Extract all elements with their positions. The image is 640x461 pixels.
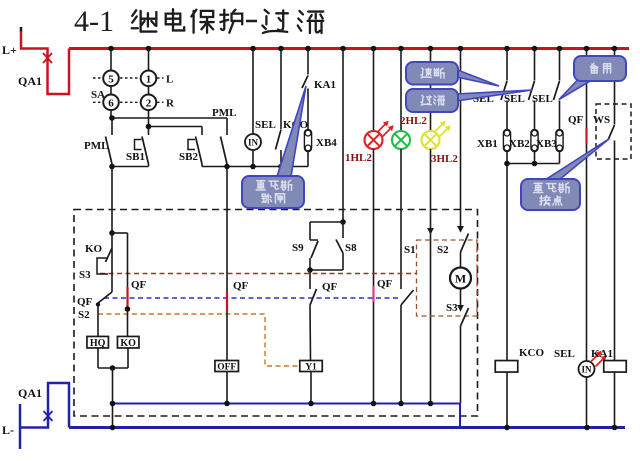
lamp 3HL2 (430, 49, 432, 132)
svg-text:XB3: XB3 (536, 138, 557, 150)
svg-text:Y1: Y1 (305, 362, 317, 372)
coil KO (117, 336, 139, 348)
svg-text:SB1: SB1 (126, 151, 145, 163)
svg-text:XB4: XB4 (316, 137, 337, 149)
callout 重瓦斯跳闸 (heavy gas trip) (277, 86, 306, 177)
svg-text:4-1: 4-1 (74, 5, 114, 38)
svg-text:3HL2: 3HL2 (431, 153, 458, 165)
svg-text:SEL: SEL (554, 348, 575, 360)
callout 过流 (overcurrent) (457, 90, 533, 101)
link XB3 (556, 130, 563, 152)
link XB2 (531, 130, 538, 152)
svg-text:S9: S9 (292, 242, 304, 254)
svg-text:QA1: QA1 (18, 74, 42, 88)
S9 S8 parallel group (340, 219, 346, 225)
L- blue bus (69, 426, 625, 429)
middle column OFF (226, 167, 228, 293)
svg-text:QF: QF (77, 296, 93, 308)
svg-text:1: 1 (146, 74, 152, 86)
connector arrows into motor box (427, 228, 434, 235)
wire SA2 row (148, 110, 150, 126)
lamp 2HL2 (400, 49, 402, 132)
callout 重瓦斯接点 (heavy gas contact) (545, 139, 610, 181)
svg-text:HQ: HQ (90, 338, 106, 349)
svg-text:S2: S2 (437, 244, 449, 256)
svg-text:2: 2 (146, 98, 152, 110)
svg-text:SB2: SB2 (179, 151, 198, 163)
relay IN top (PJ) (252, 49, 254, 135)
WS dashed enclosure (596, 104, 631, 159)
svg-text:KA1: KA1 (591, 348, 613, 360)
L+ red bus (69, 47, 629, 50)
lamp 1HL2 (373, 49, 375, 132)
svg-text:KA1: KA1 (314, 79, 336, 91)
coil Y1 (300, 361, 323, 372)
contact SEL 3 (559, 49, 561, 81)
wire S9S8 feeder (342, 49, 344, 223)
svg-text:QF: QF (568, 114, 584, 126)
svg-text:QF: QF (322, 281, 338, 293)
svg-text:IN: IN (248, 138, 259, 148)
svg-text:QF: QF (233, 280, 249, 292)
wire M feeder (460, 49, 462, 227)
svg-text:PML: PML (212, 107, 236, 119)
svg-text:6: 6 (108, 98, 114, 110)
svg-text:SEL: SEL (532, 93, 553, 105)
QF closed red segment left (126, 287, 128, 309)
left branch: wire into box (111, 167, 113, 234)
contact SEL 1 (506, 49, 508, 81)
svg-text:S8: S8 (345, 242, 357, 254)
inner blue return bus (113, 404, 461, 428)
svg-text:XB2: XB2 (509, 138, 530, 150)
motor M (450, 268, 471, 289)
linkage dashed S3 (brown) (100, 273, 416, 275)
svg-text:SEL: SEL (504, 93, 525, 105)
inner brown dashed box (417, 240, 478, 316)
svg-text:KO: KO (120, 338, 136, 349)
svg-text:1HL2: 1HL2 (345, 152, 372, 164)
svg-text:M: M (455, 272, 466, 286)
QA1 breaker top (20, 27, 23, 32)
contact SEL 2 (534, 49, 536, 81)
svg-text:L-: L- (2, 423, 14, 437)
svg-text:QF: QF (131, 279, 147, 291)
link XB1 (503, 130, 510, 152)
svg-text:OFF: OFF (217, 362, 236, 372)
svg-text:QF: QF (377, 278, 393, 290)
svg-text:L: L (166, 74, 173, 86)
svg-text:XB1: XB1 (477, 138, 498, 150)
callout 速断 (instantaneous) (457, 70, 500, 87)
svg-text:5: 5 (108, 74, 114, 86)
svg-text:SEL: SEL (255, 119, 276, 131)
svg-text:S3: S3 (446, 302, 458, 314)
wires below coils (97, 348, 99, 368)
svg-text:KO: KO (85, 243, 103, 255)
coil HQ (87, 336, 109, 348)
wire joins under contacts (111, 164, 113, 167)
svg-text:2HL2: 2HL2 (400, 115, 427, 127)
svg-text:L+: L+ (2, 43, 17, 57)
wire SA6 row (110, 110, 112, 118)
svg-text:S3: S3 (79, 269, 91, 281)
svg-text:QA1: QA1 (18, 386, 42, 400)
svg-text:PML: PML (84, 140, 108, 152)
linkage dashed QF (blue) (104, 297, 401, 299)
svg-text:S2: S2 (78, 309, 90, 321)
1HL2 column QF segment (pink) (372, 286, 374, 302)
callout 备用 (spare) (559, 81, 591, 100)
svg-text:R: R (166, 98, 175, 110)
svg-text:S1: S1 (404, 244, 416, 256)
svg-text:KCO: KCO (519, 347, 545, 359)
main dashed box (74, 210, 478, 417)
svg-text:IN: IN (581, 365, 592, 375)
branch to KO coil line (112, 232, 128, 234)
link XB4 (304, 130, 311, 152)
linkage dashed S2 to Y1 (orange) (98, 314, 299, 366)
